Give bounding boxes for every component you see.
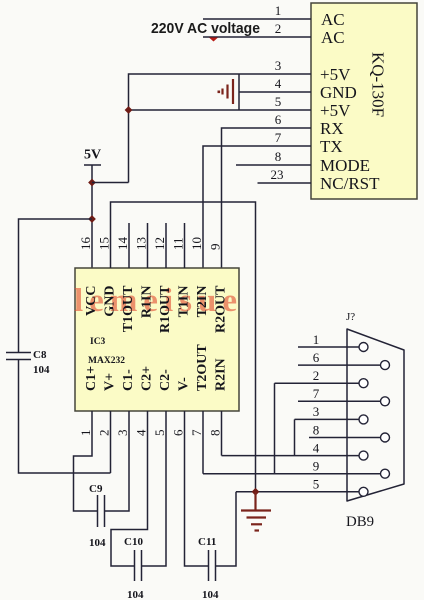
svg-text:4: 4 bbox=[275, 76, 282, 91]
svg-text:220V AC voltage: 220V AC voltage bbox=[151, 20, 260, 37]
svg-text:15: 15 bbox=[97, 237, 112, 250]
ground symbol (rotated left) bar1 bbox=[238, 74, 240, 110]
svg-text:5V: 5V bbox=[84, 148, 101, 163]
DB9 wire 6 bbox=[298, 364, 381, 366]
svg-text:AC: AC bbox=[321, 10, 345, 29]
ground bar1 bbox=[241, 509, 271, 511]
DB9 wire 5 ground net bbox=[236, 491, 359, 493]
svg-text:5: 5 bbox=[313, 477, 320, 492]
capacitor C9 plate1 bbox=[97, 495, 99, 527]
svg-text:9: 9 bbox=[208, 244, 223, 251]
wire pin5 +5V bbox=[129, 109, 312, 111]
svg-text:6: 6 bbox=[275, 112, 282, 127]
svg-text:104: 104 bbox=[33, 364, 50, 376]
DB9 pin 6 circle bbox=[381, 361, 390, 370]
capacitor C11 plate2 bbox=[215, 550, 217, 581]
pin line 15 GND bbox=[111, 202, 256, 492]
svg-text:C8: C8 bbox=[33, 349, 47, 361]
svg-text:+5V: +5V bbox=[320, 65, 351, 84]
svg-text:1: 1 bbox=[275, 3, 282, 18]
pin line 11 stub T1IN bbox=[184, 223, 186, 268]
svg-text:MAX232: MAX232 bbox=[88, 356, 125, 366]
wire pin1 AC bbox=[203, 18, 311, 20]
DB9 pin 8 circle bbox=[381, 433, 390, 442]
svg-text:C1-: C1- bbox=[121, 369, 136, 391]
DB9 pin 3 circle bbox=[359, 415, 368, 424]
ground bar3 bbox=[251, 523, 262, 525]
svg-text:T1IN: T1IN bbox=[177, 286, 192, 318]
bottom pin 8 R2IN bbox=[221, 411, 223, 456]
svg-text:6: 6 bbox=[171, 429, 186, 436]
ground bar2 bbox=[232, 79, 234, 104]
wire pin4 GND bbox=[239, 91, 311, 93]
DB9 wire 9 (T2OUT line) bbox=[203, 473, 381, 475]
DB9 wire 1 bbox=[298, 346, 359, 348]
capacitor C9 plate2 bbox=[104, 495, 106, 527]
svg-text:R1IN: R1IN bbox=[140, 286, 155, 319]
svg-text:5: 5 bbox=[152, 430, 167, 437]
capacitor C8 plate2 bbox=[6, 359, 31, 361]
wire pin3 +5V bbox=[129, 74, 312, 183]
junction node ground bbox=[252, 488, 260, 496]
svg-text:+5V: +5V bbox=[320, 101, 351, 120]
svg-text:DB9: DB9 bbox=[346, 514, 374, 530]
svg-text:C10: C10 bbox=[124, 536, 143, 548]
svg-text:R1OUT: R1OUT bbox=[158, 285, 173, 333]
wire VCC to C8 bbox=[19, 219, 93, 352]
bottom pin 2 V+ bbox=[110, 411, 112, 473]
svg-text:11: 11 bbox=[171, 237, 186, 250]
svg-text:7: 7 bbox=[189, 429, 204, 436]
svg-text:9: 9 bbox=[313, 459, 320, 474]
DB9 wire 4 (R2IN line) bbox=[222, 455, 360, 457]
DB9 pin 2 circle bbox=[359, 379, 368, 388]
svg-text:C1+: C1+ bbox=[84, 366, 99, 391]
svg-text:KQ-130F: KQ-130F bbox=[369, 52, 388, 117]
connector J? DB9 body bbox=[347, 329, 404, 501]
DB9 wire 2 with drop to T2OUT net bbox=[275, 382, 360, 384]
wire pin8 MODE stub bbox=[236, 164, 311, 166]
svg-text:5: 5 bbox=[275, 94, 282, 109]
svg-text:V-: V- bbox=[177, 377, 192, 391]
svg-text:C2-: C2- bbox=[158, 369, 173, 391]
red net marker triangle bbox=[209, 38, 218, 42]
wire C8 bottom to V+ bbox=[19, 360, 111, 474]
svg-text:8: 8 bbox=[313, 423, 320, 438]
wire pin23 NC/RST stub bbox=[258, 182, 312, 184]
svg-text:V+: V+ bbox=[103, 373, 118, 391]
svg-text:C2+: C2+ bbox=[140, 366, 155, 391]
svg-text:RX: RX bbox=[320, 119, 344, 138]
capacitor C11 plate1 bbox=[208, 550, 210, 581]
svg-text:4: 4 bbox=[134, 429, 149, 436]
svg-text:R2IN: R2IN bbox=[214, 358, 229, 391]
IC U2 MAX232 body bbox=[75, 268, 239, 411]
ground stem bbox=[254, 492, 256, 510]
svg-text:R2OUT: R2OUT bbox=[214, 285, 229, 333]
svg-text:23: 23 bbox=[271, 167, 284, 182]
DB9 wire 3 with drop to R2IN net bbox=[295, 418, 360, 420]
DB9 wire 7 bbox=[298, 400, 381, 402]
svg-text:7: 7 bbox=[275, 130, 282, 145]
svg-text:3: 3 bbox=[313, 404, 320, 419]
wire C11 right to DB9 pin5 net bbox=[216, 492, 237, 566]
svg-text:3: 3 bbox=[115, 430, 130, 437]
bottom pin 1 C1+ bbox=[74, 411, 98, 511]
svg-text:T1OUT: T1OUT bbox=[121, 285, 136, 332]
svg-text:104: 104 bbox=[202, 589, 219, 600]
svg-text:NC/RST: NC/RST bbox=[320, 174, 380, 193]
DB9 pin 5 circle bbox=[359, 487, 368, 496]
DB9 pin 1 circle bbox=[359, 343, 368, 352]
svg-text:2: 2 bbox=[275, 21, 282, 36]
svg-text:13: 13 bbox=[134, 237, 149, 250]
wire 5V rail down to MAX232 pin16 bbox=[91, 165, 93, 268]
svg-text:104: 104 bbox=[127, 589, 144, 600]
bottom pin 6 V- bbox=[185, 411, 209, 566]
wire pin2 AC bbox=[203, 36, 311, 38]
svg-text:16: 16 bbox=[78, 237, 93, 251]
DB9 pin 9 circle bbox=[381, 469, 390, 478]
svg-text:MODE: MODE bbox=[320, 156, 370, 175]
bottom pin 3 C1- bbox=[105, 411, 130, 511]
svg-text:GND: GND bbox=[103, 286, 118, 317]
wire 5V branch to pin3 bbox=[92, 182, 129, 184]
svg-text:T2IN: T2IN bbox=[195, 286, 210, 318]
wire pin6 RX to R2OUT bbox=[222, 128, 312, 268]
module U1 KQ-130F body bbox=[311, 3, 417, 199]
svg-text:IC3: IC3 bbox=[90, 337, 106, 347]
ground bar4 bbox=[255, 529, 260, 531]
svg-text:VCC: VCC bbox=[84, 286, 99, 316]
capacitor C10 plate2 bbox=[141, 550, 143, 581]
junction node 5V-branch bbox=[88, 179, 96, 187]
bottom pin 7 T2OUT bbox=[202, 411, 204, 474]
pin line 12 stub R1OUT bbox=[165, 223, 167, 268]
junction node C8-VCC bbox=[88, 215, 96, 223]
ground bar4 bbox=[221, 89, 223, 95]
DB9 wire 8 bbox=[309, 437, 381, 439]
wire pin7 TX to T2IN bbox=[203, 146, 311, 268]
svg-text:8: 8 bbox=[275, 149, 282, 164]
svg-text:6: 6 bbox=[313, 350, 320, 365]
svg-text:2: 2 bbox=[97, 430, 112, 437]
capacitor C8 plate1 bbox=[6, 352, 31, 354]
svg-text:C11: C11 bbox=[198, 536, 216, 548]
5V bar bbox=[84, 164, 101, 166]
ground dot bbox=[218, 91, 221, 94]
svg-text:T2OUT: T2OUT bbox=[195, 344, 210, 391]
svg-text:AC: AC bbox=[321, 28, 345, 47]
capacitor C10 plate1 bbox=[134, 550, 136, 581]
svg-text:4: 4 bbox=[313, 441, 320, 456]
junction at 5V branch bbox=[125, 106, 133, 114]
svg-text:14: 14 bbox=[115, 237, 130, 251]
svg-text:8: 8 bbox=[208, 430, 223, 437]
svg-text:12: 12 bbox=[152, 237, 167, 250]
DB9 pin 4 circle bbox=[359, 451, 368, 460]
svg-text:GND: GND bbox=[320, 83, 357, 102]
svg-text:J?: J? bbox=[346, 311, 355, 323]
DB9 pin 7 circle bbox=[381, 397, 390, 406]
ground bar2 bbox=[247, 516, 267, 518]
bottom pin 5 C2- bbox=[142, 411, 167, 566]
svg-text:2: 2 bbox=[313, 368, 320, 383]
svg-text:7: 7 bbox=[313, 386, 320, 401]
bottom pin 4 C2+ bbox=[111, 411, 148, 566]
svg-text:C9: C9 bbox=[89, 483, 103, 495]
pin line 13 stub R1IN bbox=[147, 223, 149, 268]
svg-text:TX: TX bbox=[320, 137, 343, 156]
svg-text:3: 3 bbox=[275, 58, 282, 73]
svg-text:1: 1 bbox=[78, 430, 93, 437]
ground bar3 bbox=[226, 85, 228, 99]
svg-text:10: 10 bbox=[189, 237, 204, 250]
svg-text:1: 1 bbox=[313, 332, 320, 347]
pin line 14 stub T1OUT bbox=[128, 223, 130, 268]
svg-text:104: 104 bbox=[89, 537, 106, 549]
